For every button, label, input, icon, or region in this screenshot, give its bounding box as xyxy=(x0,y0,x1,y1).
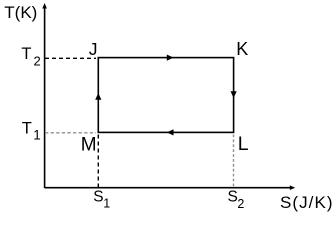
svg-text:S: S xyxy=(228,188,238,205)
svg-text:M: M xyxy=(81,135,97,156)
svg-text:S: S xyxy=(93,189,103,206)
svg-text:T: T xyxy=(21,45,31,63)
svg-text:T(K): T(K) xyxy=(4,3,37,22)
svg-text:1: 1 xyxy=(103,197,110,211)
svg-text:2: 2 xyxy=(237,197,244,211)
svg-text:J: J xyxy=(89,39,98,59)
svg-text:1: 1 xyxy=(33,128,41,143)
svg-text:S(J/K): S(J/K) xyxy=(280,193,333,212)
svg-text:L: L xyxy=(238,133,249,155)
svg-text:2: 2 xyxy=(34,54,41,69)
svg-text:T: T xyxy=(22,120,32,138)
svg-text:K: K xyxy=(236,39,248,59)
